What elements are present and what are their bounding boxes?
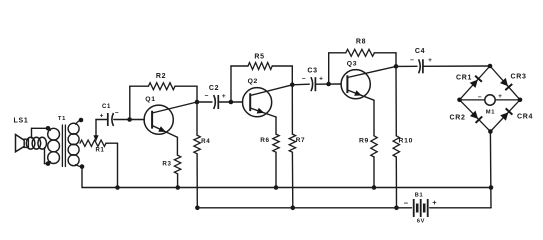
- diode CR3: [500, 78, 512, 90]
- diode CR2: [470, 111, 482, 123]
- label LS1: [14, 117, 29, 124]
- C3 minus sign: [302, 75, 306, 82]
- wire Q3 base junction up to R8: [328, 53, 330, 84]
- svg-text:R8: R8: [356, 39, 366, 46]
- C1 minus sign: [115, 109, 119, 116]
- M1 plus sign: [498, 93, 502, 100]
- svg-text:+: +: [428, 57, 432, 64]
- label R6: [260, 137, 270, 144]
- label Q3: [347, 61, 357, 68]
- wire bridge bottom to rails: [489, 132, 492, 208]
- svg-text:C1: C1: [102, 104, 111, 110]
- svg-text:R3: R3: [162, 161, 171, 168]
- wire Q1 emitter down to R3: [176, 137, 178, 155]
- svg-text:Q1: Q1: [145, 96, 155, 103]
- wire base junction up to R2: [129, 86, 131, 119]
- label R1: [95, 148, 104, 154]
- label CR3: [510, 73, 526, 80]
- label 6V: [417, 219, 425, 225]
- label CR1: [456, 74, 472, 81]
- resistor R4: [194, 102, 200, 208]
- label R9: [359, 138, 369, 145]
- resistor R3: [174, 155, 180, 187]
- node Q1 base junction: [127, 117, 132, 122]
- node R10 battery rail junction: [394, 206, 399, 211]
- wire Q3 emitter down to R9: [373, 100, 375, 136]
- wire collector junction to C2: [197, 101, 212, 103]
- M1 minus sign: [478, 94, 482, 101]
- resistor R5: [231, 63, 292, 70]
- wire R8 right down to Q3 collector junction: [395, 53, 397, 67]
- label R4: [201, 138, 210, 145]
- potentiometer R1: [80, 140, 106, 146]
- svg-text:CR3: CR3: [510, 73, 526, 80]
- label R7: [296, 137, 306, 144]
- R1 wiper arrow: [93, 120, 98, 142]
- node bridge left: [457, 98, 462, 103]
- node R1 ground junction: [115, 185, 120, 190]
- wire C3 to Q3 base: [316, 83, 341, 85]
- svg-text:M1: M1: [486, 110, 496, 116]
- transistor Q1: [144, 102, 197, 137]
- svg-text:+: +: [498, 93, 502, 100]
- svg-text:R2: R2: [156, 73, 166, 80]
- label M1: [486, 110, 496, 116]
- diode CR1: [470, 76, 482, 88]
- wire R5 right down to Q2 collector junction: [291, 66, 293, 85]
- svg-text:R7: R7: [296, 137, 306, 144]
- svg-text:T1: T1: [58, 116, 66, 122]
- label C2: [209, 85, 219, 92]
- svg-text:R6: R6: [260, 137, 270, 144]
- svg-text:R1: R1: [95, 148, 104, 154]
- wire ground rail: [82, 187, 491, 189]
- svg-text:R4: R4: [201, 138, 210, 145]
- capacitor C2: [214, 95, 219, 109]
- node Q3 base junction: [326, 82, 331, 87]
- svg-text:+: +: [319, 75, 323, 82]
- label CR4: [517, 113, 533, 120]
- node R9 ground junction: [372, 185, 377, 190]
- node bridge top: [488, 64, 493, 69]
- node primary top: [46, 126, 51, 131]
- C4 plus sign: [428, 57, 432, 64]
- bridge edge bottom-right: [490, 100, 520, 132]
- svg-text:CR2: CR2: [449, 114, 465, 121]
- transistor Q2: [243, 85, 293, 117]
- svg-text:CR1: CR1: [456, 74, 472, 81]
- svg-text:R10: R10: [399, 138, 414, 145]
- wire secondary bottom to ground rail: [81, 167, 83, 188]
- resistor R8: [329, 49, 396, 56]
- svg-text:+: +: [432, 198, 437, 207]
- svg-text:B1: B1: [415, 193, 424, 199]
- node ground rail right end: [489, 185, 494, 190]
- transformer T1 secondary winding: [68, 120, 82, 167]
- C3 plus sign: [319, 75, 323, 82]
- wire R2 right down to collector junction: [196, 86, 198, 102]
- bridge edge top-left: [460, 66, 491, 100]
- label R3: [162, 161, 171, 168]
- svg-text:−: −: [478, 94, 482, 101]
- label C1: [102, 104, 111, 110]
- resistor R9: [371, 136, 377, 188]
- node secondary bottom terminal: [80, 164, 85, 169]
- resistor R10: [393, 66, 399, 207]
- svg-text:C4: C4: [415, 48, 425, 55]
- meter M1: [485, 95, 495, 105]
- label C3: [307, 68, 317, 75]
- svg-text:R5: R5: [254, 54, 264, 61]
- wire R1 right end to ground rail: [106, 143, 118, 187]
- svg-text:Q3: Q3: [347, 61, 357, 68]
- capacitor C4: [419, 59, 423, 73]
- node R3 ground junction: [176, 185, 181, 190]
- label Q2: [248, 78, 258, 85]
- C4 minus sign: [410, 57, 414, 64]
- wire Q2 collector junction to C3: [292, 83, 309, 86]
- node R7 battery rail junction: [291, 206, 296, 211]
- label T1: [58, 116, 66, 122]
- transformer T1 core: [62, 125, 65, 167]
- node R6 ground junction: [274, 185, 279, 190]
- label R8: [356, 39, 366, 46]
- B1 plus sign: [432, 198, 437, 207]
- wire speaker bottom to T1 primary: [45, 148, 49, 164]
- wire speaker top to T1 primary: [32, 128, 49, 138]
- node Q1 collector junction: [195, 100, 200, 105]
- wire Q2 emitter down to R6: [275, 117, 277, 134]
- node bridge bottom: [488, 129, 493, 134]
- speaker LS1: [16, 135, 47, 152]
- wire C1 to Q1 base: [114, 119, 145, 121]
- resistor R6: [273, 134, 279, 187]
- wire meter lead: [460, 99, 521, 101]
- svg-text:−: −: [205, 93, 209, 100]
- label R2: [156, 73, 166, 80]
- svg-text:C3: C3: [307, 68, 317, 75]
- node primary bottom: [46, 161, 51, 166]
- bridge edge bottom-left: [460, 100, 491, 132]
- resistor R2: [130, 83, 197, 90]
- svg-text:C2: C2: [209, 85, 219, 92]
- transistor Q3: [341, 66, 396, 100]
- node R4 battery rail junction: [195, 206, 200, 211]
- svg-text:+: +: [222, 93, 226, 100]
- svg-text:−: −: [115, 109, 119, 116]
- svg-text:Q2: Q2: [248, 78, 258, 85]
- capacitor C1: [108, 113, 114, 126]
- svg-text:R9: R9: [359, 138, 369, 145]
- C2 plus sign: [222, 93, 226, 100]
- transformer T1 primary winding: [48, 128, 60, 163]
- wire wiper to C1: [96, 119, 108, 121]
- svg-text:6V: 6V: [417, 219, 425, 225]
- svg-text:−: −: [302, 75, 306, 82]
- svg-text:+: +: [100, 112, 104, 119]
- node Q2 base junction: [229, 100, 234, 105]
- wire Q3 collector junction to C4: [396, 65, 417, 67]
- battery B1: [414, 199, 428, 217]
- wire battery rail right: [430, 207, 491, 209]
- wire Q2 base junction up to R5: [230, 66, 232, 102]
- wire C4 to bridge top node: [423, 65, 490, 67]
- svg-text:LS1: LS1: [14, 117, 29, 124]
- B1 minus sign: [404, 199, 409, 208]
- bridge edge top-right: [490, 66, 520, 100]
- label R5: [254, 54, 264, 61]
- C2 minus sign: [205, 93, 209, 100]
- svg-text:−: −: [410, 57, 414, 64]
- wire C2 to Q2 base: [219, 101, 243, 103]
- diode CR4: [500, 108, 512, 120]
- label CR2: [449, 114, 465, 121]
- label R10: [399, 138, 414, 145]
- node secondary top terminal: [79, 118, 84, 123]
- node Q3 collector junction: [394, 64, 399, 69]
- label B1: [415, 193, 424, 199]
- wire battery rail left: [197, 207, 411, 209]
- resistor R7: [289, 85, 295, 208]
- label C4: [415, 48, 425, 55]
- node bridge right: [518, 98, 523, 103]
- C1 plus sign: [100, 112, 104, 119]
- node Q2 collector junction: [290, 83, 295, 88]
- svg-text:−: −: [404, 199, 409, 208]
- capacitor C3: [311, 77, 315, 91]
- svg-text:CR4: CR4: [517, 113, 533, 120]
- label Q1: [145, 96, 155, 103]
